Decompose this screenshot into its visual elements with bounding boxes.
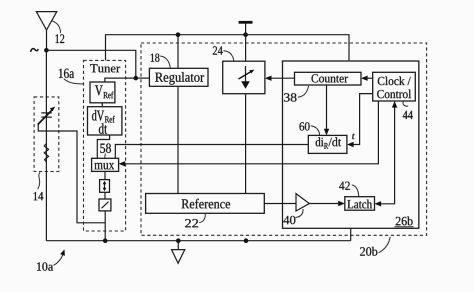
Latch box <box>329 137 375 210</box>
label 60 <box>311 126 324 147</box>
label 20b <box>37 237 390 271</box>
label 44 <box>312 74 409 106</box>
wire Regulator bottom to Reference top <box>177 86 179 193</box>
wire capacitor tap to tuner switch chain <box>38 125 105 223</box>
wire Counter to diR/dt with arrow <box>324 85 329 135</box>
label 18 <box>160 56 412 225</box>
wire left branch antenna to ground rail <box>45 50 47 240</box>
node rail/box24 junction <box>244 238 249 243</box>
label 14 <box>34 172 44 200</box>
node B tuner input junction <box>134 76 139 81</box>
label 26b underlined <box>105 116 414 227</box>
wire mux to varactor driver <box>104 171 106 179</box>
block 26b solid box <box>283 61 419 228</box>
ground symbol <box>172 241 185 264</box>
box 24 variable current source <box>223 61 265 93</box>
wire diR/dt output to mux top <box>115 145 308 159</box>
switch box <box>99 199 111 211</box>
Counter box <box>99 72 361 133</box>
label 38 <box>94 86 308 170</box>
wire Counter to box 24 with arrow <box>265 76 295 81</box>
label 16a <box>64 79 198 228</box>
wire 26b block to ground rail <box>350 228 352 240</box>
VDD top rail <box>106 35 350 61</box>
label 58 <box>100 144 111 159</box>
wire comparator to Latch with arrow <box>309 201 345 206</box>
wire VRef to dVRef/dt <box>101 103 103 107</box>
AC source symbol ~ <box>31 49 39 52</box>
VRef box <box>90 46 297 102</box>
variable capacitor <box>38 107 55 125</box>
label 24 <box>90 51 234 73</box>
tuner dashed box <box>84 60 126 231</box>
wire node B to VRef box <box>105 78 136 82</box>
Reference box <box>95 85 264 213</box>
Clock/Control box <box>155 72 415 208</box>
wire box 24 bottom to Reference top <box>245 94 247 194</box>
wire latch clock from Clock/Control with arrows <box>375 101 398 207</box>
wire antenna junction to tuner input node <box>46 50 135 78</box>
varactor box with up-down arrow <box>100 180 110 193</box>
label 12 <box>52 21 64 43</box>
wire Reference to comparator <box>264 203 296 205</box>
inductor <box>44 144 48 163</box>
dashed box 14 LC tank <box>34 97 59 172</box>
node rail/ground junction <box>176 238 181 243</box>
wire Clock/Control to Counter with arrow <box>361 76 373 81</box>
wire varactor driver to switch <box>104 192 106 199</box>
node rail/regulator junction <box>176 32 181 37</box>
antenna <box>36 12 57 51</box>
label 22 <box>103 92 205 223</box>
wire node B to Regulator input <box>136 77 150 79</box>
label Tuner <box>151 54 160 62</box>
mux box <box>92 122 310 171</box>
node A antenna junction <box>44 48 49 53</box>
wire Clock/Control to mux select with arrow <box>119 101 379 167</box>
power supply symbol <box>239 22 253 34</box>
node rail/supply junction <box>243 32 248 37</box>
big dashed box 20b <box>141 43 427 235</box>
comparator 40 <box>296 194 309 211</box>
label 40 <box>92 110 303 218</box>
wire rail to Regulator top <box>177 35 179 69</box>
label 42 <box>352 134 359 197</box>
wire Clock/Control t to diR/dt with arrow <box>347 94 373 148</box>
diR/dt box <box>308 77 411 209</box>
label t <box>324 143 328 149</box>
wire supply to box 24 top <box>245 35 247 62</box>
label 10a <box>54 69 75 266</box>
wire switch to ground rail <box>104 211 106 241</box>
Regulator box <box>149 68 377 255</box>
node rail/tuner junction <box>103 238 108 243</box>
wire 58 dVRef/dt to mux <box>97 135 109 158</box>
dVRef/dt box <box>88 107 413 225</box>
bottom ground rail <box>46 240 350 242</box>
